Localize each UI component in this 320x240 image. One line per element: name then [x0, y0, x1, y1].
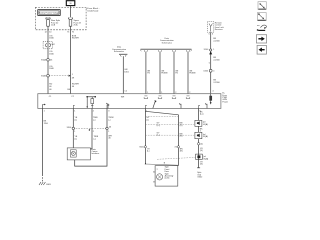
wire label RD/WH above module — [72, 84, 79, 88]
wire label A upper — [75, 117, 78, 121]
bus hooks drop 4 — [186, 50, 189, 52]
ground G305 — [39, 182, 52, 186]
svg-text:2-2300: 2-2300 — [213, 82, 220, 84]
wire label C upper — [108, 117, 113, 121]
svg-text:(+): (+) — [93, 119, 96, 121]
wire label gnd right upper — [200, 112, 204, 116]
wire label BK 2300 low — [213, 80, 220, 84]
pin labels fuse block exits — [45, 31, 75, 33]
tweeter box 1 — [195, 120, 202, 126]
data bus stub left — [119, 54, 127, 56]
svg-text:Battery Positive Voltage: Battery Positive Voltage — [39, 12, 59, 15]
module internal switch c — [205, 103, 207, 108]
bus hooks drop 3 — [172, 50, 175, 52]
svg-text:(Left): (Left) — [165, 177, 170, 180]
module internal arrow — [153, 100, 157, 108]
wire fuse F42 output — [47, 26, 49, 94]
svg-text:PU/BN: PU/BN — [161, 73, 168, 75]
nav icon arrow left — [257, 45, 266, 54]
module pin flag A — [73, 105, 74, 108]
wire from battery box to fuse block — [70, 6, 72, 18]
inline connector C1 dashed box — [43, 42, 56, 49]
svg-text:RD/WH: RD/WH — [72, 38, 79, 40]
label remote control door lock receiver — [215, 21, 224, 31]
inline connector gnd right — [197, 143, 203, 146]
svg-text:PU/BN: PU/BN — [189, 73, 196, 75]
svg-text:(L+): (L+) — [157, 125, 161, 127]
wire bottom A — [72, 108, 74, 147]
wire label spk2 mid — [180, 133, 183, 137]
radio module box — [38, 94, 221, 109]
pin labels data drops — [147, 92, 191, 94]
fuse F42 — [46, 17, 60, 26]
wire label spk1 low — [147, 149, 151, 153]
wire speaker right — [178, 115, 180, 166]
wire serial data center — [122, 56, 124, 93]
dotted row 2 — [147, 123, 195, 125]
label between tweeters — [200, 128, 203, 132]
fuse F43 — [68, 18, 81, 27]
wire ground left — [42, 108, 44, 181]
terminator drop 2 — [158, 96, 162, 99]
wire label drop 4 — [189, 70, 196, 74]
module pin flag gnd-right — [199, 105, 200, 108]
svg-text:Power: Power — [222, 101, 228, 103]
svg-text:UQA): UQA) — [203, 123, 208, 126]
svg-text:(Lo): (Lo) — [200, 114, 204, 116]
svg-text:X50A: X50A — [41, 59, 47, 62]
wire speaker slant tap — [145, 111, 178, 115]
svg-text:(L): (L) — [75, 119, 78, 121]
note UQA left — [157, 123, 161, 127]
inline connector X140 triangle — [204, 49, 216, 55]
fuse block dashed box — [35, 7, 86, 29]
terminator drop 1 — [144, 96, 148, 99]
module internal bus — [86, 96, 96, 98]
wire label RD/WH 46 — [72, 35, 79, 39]
module internal switch a — [106, 103, 108, 108]
svg-text:25 A: 25 A — [74, 24, 79, 27]
label tweeter 2 — [203, 134, 208, 138]
svg-text:(L): (L) — [75, 138, 78, 140]
svg-text:(R): (R) — [180, 125, 183, 127]
wire data drop 3 — [173, 52, 175, 94]
svg-text:(L): (L) — [146, 119, 149, 121]
wire speaker left — [144, 108, 146, 164]
nav icon signature — [257, 25, 267, 31]
svg-text:Schematics: Schematics — [114, 50, 124, 53]
wire label BK 2300 mid — [213, 57, 220, 61]
ground terminal right — [197, 167, 200, 169]
data bus bar — [141, 49, 192, 51]
svg-text:(+): (+) — [94, 138, 97, 140]
nav icon diagonal 1 — [258, 2, 266, 10]
dotted shield link — [157, 157, 196, 159]
label speaker — [165, 167, 174, 180]
data communication label right — [160, 37, 174, 44]
dotted splice link lower — [67, 126, 112, 130]
wire label drop 3 — [175, 70, 179, 74]
wire label spk2 upper — [180, 123, 183, 127]
data comm interface box — [67, 148, 90, 160]
fuse block label box — [38, 10, 60, 16]
wire label C lower — [108, 135, 112, 139]
wire label RD 46 above module — [49, 84, 52, 88]
wire label spk2 low — [180, 149, 183, 153]
wire label BK 2300 top — [213, 38, 220, 42]
bus hooks drop 2 — [158, 50, 161, 52]
svg-text:(R): (R) — [180, 136, 183, 138]
inline connector X50A — [41, 59, 53, 62]
svg-text:(R): (R) — [180, 151, 183, 153]
terminator drop 4 — [186, 96, 190, 99]
dotted splice link upper — [41, 74, 75, 80]
terminator drop 3 — [172, 96, 176, 99]
svg-text:G302: G302 — [197, 177, 203, 179]
note UQA left2 — [157, 133, 161, 137]
svg-text:Interface: Interface — [92, 152, 101, 155]
wire label OG 1840 mid — [49, 51, 54, 55]
svg-text:(S): (S) — [200, 164, 203, 166]
wire label A lower — [75, 136, 78, 140]
wire label OG 1840 lower — [49, 66, 54, 70]
nav icon diagonal 2 — [257, 13, 266, 21]
inline connector X455 — [203, 69, 215, 72]
module pin flag spk1 — [145, 105, 146, 108]
wire label drop 2 — [161, 70, 168, 74]
svg-text:(L): (L) — [147, 151, 150, 153]
wire label drop 1 — [147, 70, 151, 74]
svg-text:(4): (4) — [200, 144, 203, 146]
svg-text:(S): (S) — [200, 150, 203, 152]
svg-text:X50B: X50B — [41, 76, 47, 78]
pin labels receiver — [208, 33, 214, 35]
wire data drop 1 — [145, 52, 147, 94]
wire label OG 1840 upper — [49, 35, 54, 39]
wire antenna chain — [210, 32, 212, 93]
data communication label left — [112, 46, 126, 53]
nav icon arrow right — [256, 35, 266, 43]
module internal breaker right — [210, 94, 212, 105]
inline connector spk2 — [175, 146, 180, 149]
wire data drop 4 — [187, 52, 189, 94]
label data comm interface — [92, 148, 101, 155]
module internal wire drop — [86, 97, 88, 109]
wire bottom B — [90, 108, 92, 148]
svg-text:Receiver: Receiver — [215, 29, 223, 31]
module label right side — [222, 93, 228, 104]
wire label gnd right mid — [200, 148, 204, 152]
svg-text:2-2300: 2-2300 — [213, 40, 220, 42]
wire bottom C — [75, 108, 107, 166]
svg-text:WH: WH — [121, 96, 125, 98]
wire label B lower — [94, 136, 99, 140]
svg-text:2-2300: 2-2300 — [213, 59, 220, 61]
battery positive box 30 — [66, 1, 75, 6]
label tweeter 1 — [203, 122, 208, 126]
module internal resistor — [91, 97, 94, 109]
wire label gnd right low — [200, 162, 204, 166]
label Fuse Block Underhood — [86, 8, 100, 12]
svg-text:UQA): UQA) — [203, 157, 208, 160]
remote control door lock receiver dashed box — [207, 22, 213, 33]
svg-text:Schematics: Schematics — [162, 41, 172, 44]
dotted row 1 — [147, 116, 178, 118]
bus hooks drop 1 — [144, 50, 147, 52]
module pin flag ground — [43, 104, 46, 109]
speaker box — [155, 166, 178, 186]
speaker symbol — [153, 170, 162, 183]
wire fuse F43 output — [70, 26, 72, 94]
dotted row 3 — [147, 134, 195, 136]
label ground right — [197, 172, 203, 178]
tweeter box 2 — [195, 132, 202, 138]
svg-text:Underhood: Underhood — [87, 10, 99, 13]
shield box — [196, 154, 209, 160]
svg-text:10 A: 10 A — [51, 24, 56, 27]
wire ground right chain — [198, 108, 200, 120]
wire label spk1 upper — [146, 117, 150, 121]
inline connector spk1 — [139, 146, 146, 149]
wire label BK 1150 — [44, 121, 49, 125]
svg-text:UQA): UQA) — [203, 135, 208, 138]
svg-text:(-): (-) — [108, 119, 110, 121]
wire data drop 2 — [159, 52, 161, 94]
wire label B upper — [93, 117, 98, 121]
wire speaker jog — [145, 163, 179, 166]
module internal switch b — [179, 103, 181, 108]
wire label serial data center — [124, 69, 129, 73]
module pin flag C — [107, 104, 110, 108]
